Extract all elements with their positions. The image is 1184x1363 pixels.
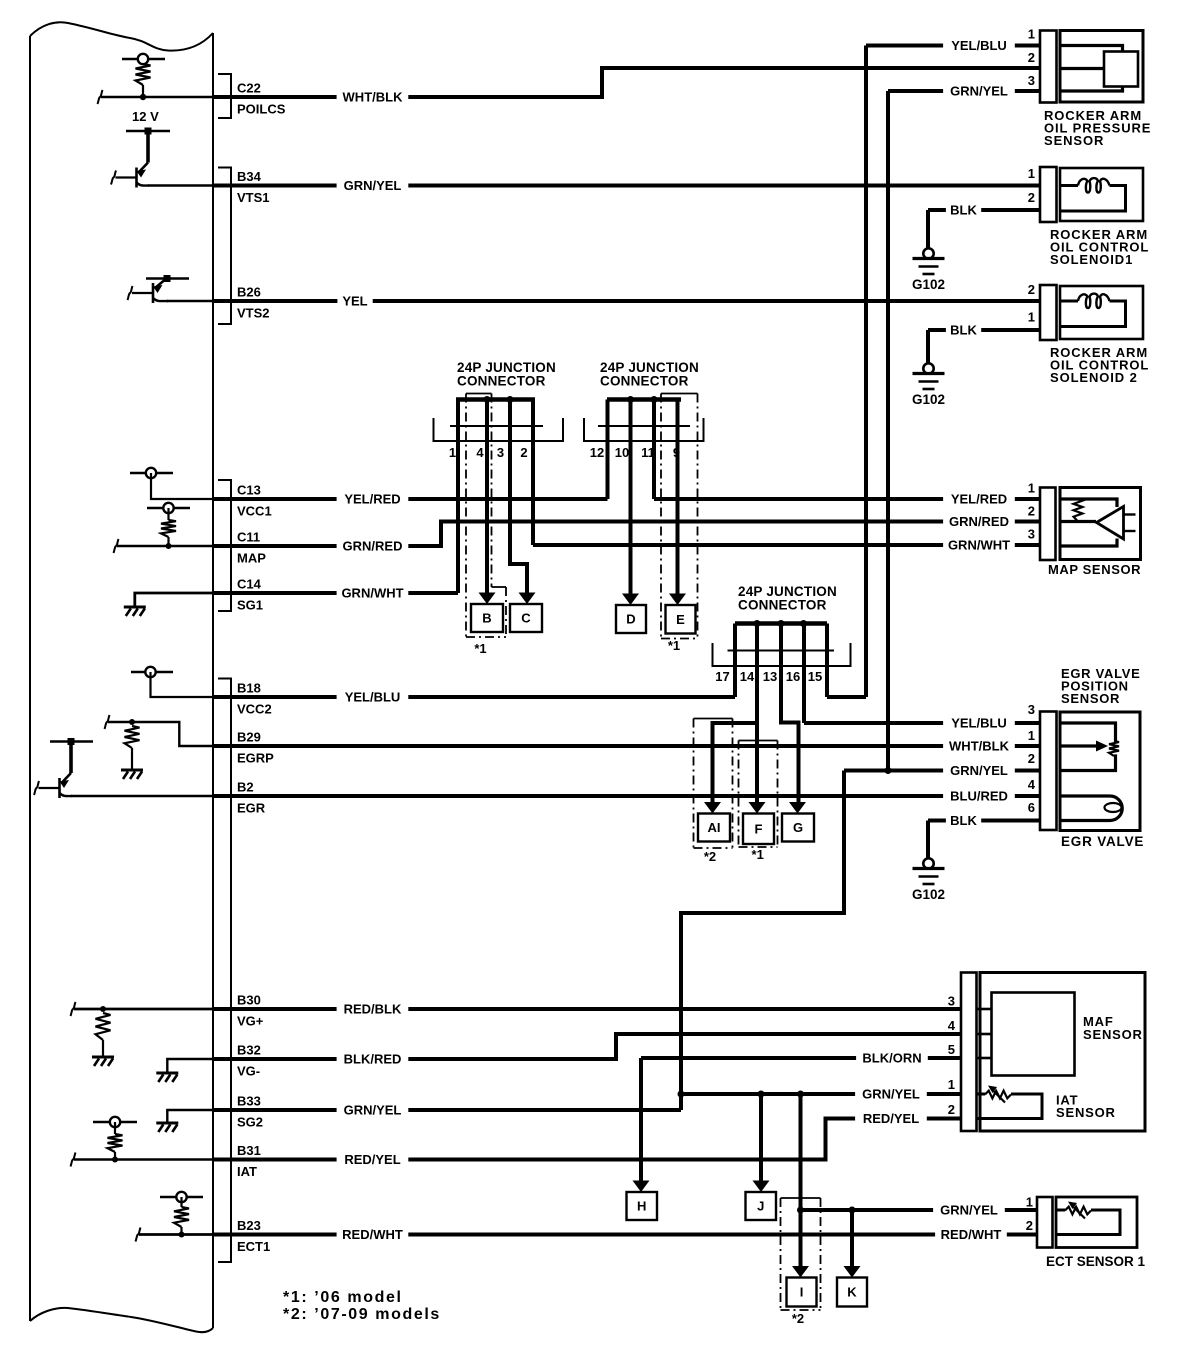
svg-text:EGRP: EGRP	[237, 751, 274, 766]
label RED/YEL	[337, 1151, 409, 1168]
svg-text:MAP: MAP	[237, 551, 266, 566]
svg-text:WHT/BLK: WHT/BLK	[949, 739, 1010, 754]
junction reference box D	[616, 605, 646, 633]
internal divider at C11 (MAP)	[147, 507, 190, 509]
svg-text:YEL/BLU: YEL/BLU	[951, 716, 1007, 731]
EGR body	[1060, 712, 1140, 831]
svg-text:SENSOR: SENSOR	[1083, 1027, 1143, 1042]
svg-text:17: 17	[715, 669, 729, 684]
svg-text:B33: B33	[237, 1094, 261, 1109]
svg-text:H: H	[637, 1199, 646, 1214]
JC1 bus junction dot pin 3	[507, 396, 514, 403]
JC1 connector face	[450, 425, 543, 427]
wire BLK drop to G102	[926, 330, 930, 363]
JC3 pin 15	[825, 624, 829, 698]
svg-text:AI: AI	[708, 820, 721, 835]
internal circuit at B30 (VG+)	[74, 1008, 213, 1011]
svg-text:15: 15	[808, 669, 822, 684]
junction on EGRP bar	[129, 719, 135, 725]
svg-text:WHT/BLK: WHT/BLK	[343, 90, 404, 105]
label GRN/RED	[337, 538, 409, 555]
EGR valve coil	[1060, 796, 1122, 821]
svg-text:1: 1	[1028, 310, 1035, 325]
svg-text:5: 5	[948, 1042, 955, 1057]
svg-text:2: 2	[520, 445, 527, 460]
svg-text:ECT1: ECT1	[237, 1239, 270, 1254]
svg-text:SOLENOID1: SOLENOID1	[1050, 252, 1133, 267]
wire GRN/YEL drop to K	[850, 1210, 854, 1266]
JC3 bus junction dot pin 14	[754, 620, 761, 627]
JC2 connector bracket	[584, 418, 704, 441]
MAP amplifier triangle	[1097, 507, 1124, 540]
wire GRN/YEL drop to J	[759, 1094, 763, 1181]
MAP sensor internals	[1060, 499, 1117, 507]
JC1 connector bracket	[434, 418, 564, 441]
junction reference box J	[746, 1192, 777, 1220]
svg-text:YEL/BLU: YEL/BLU	[345, 690, 401, 705]
MAF sensor connector	[961, 973, 977, 1132]
svg-text:GRN/WHT: GRN/WHT	[948, 538, 1010, 553]
junction reference box H	[627, 1192, 658, 1220]
label BLK/RED	[337, 1051, 409, 1068]
JC3 pin 13 to box G	[781, 624, 799, 803]
JC3 connector bracket	[713, 643, 851, 666]
svg-text:RED/BLK: RED/BLK	[344, 1002, 402, 1017]
svg-text:B18: B18	[237, 681, 261, 696]
label RED/WHT ECT	[935, 1226, 1007, 1243]
rocker arm oil pressure sensor connector	[1040, 31, 1057, 103]
internal supply circuit at B18 (VCC2)	[131, 671, 173, 673]
svg-text:YEL/RED: YEL/RED	[951, 492, 1007, 507]
svg-text:I: I	[800, 1285, 804, 1300]
label YEL/RED right	[943, 491, 1015, 508]
svg-text:C22: C22	[237, 81, 261, 96]
svg-text:BLU/RED: BLU/RED	[950, 789, 1008, 804]
junction dot GRN/YEL I branch	[797, 1091, 804, 1098]
wire YEL/BLU JC3 pin 15 link to trunk	[827, 695, 866, 699]
svg-text:POILCS: POILCS	[237, 102, 286, 117]
transistor Q1 (VTS1 driver)	[126, 130, 170, 132]
svg-text:MAP SENSOR: MAP SENSOR	[1048, 562, 1141, 577]
svg-text:*2: *2	[792, 1311, 804, 1326]
label WHT/BLK EGR	[943, 738, 1015, 755]
svg-text:*2: ’07-09 models: *2: ’07-09 models	[283, 1306, 441, 1323]
label GRN/YEL	[337, 1102, 409, 1119]
solenoid 2 connector	[1040, 285, 1057, 340]
svg-text:G102: G102	[912, 277, 945, 292]
svg-text:G: G	[793, 820, 803, 835]
svg-text:14: 14	[740, 669, 755, 684]
junction reference box AI	[698, 814, 730, 842]
MAF sensor body	[980, 973, 1145, 1132]
svg-text:2: 2	[1028, 282, 1035, 297]
junction dot GRN/YEL trunk at EGR row	[885, 767, 892, 774]
svg-text:SENSOR: SENSOR	[1044, 133, 1104, 148]
dash-dot box *1 around JC2 pin 9 and box E	[661, 393, 698, 395]
svg-text:16: 16	[786, 669, 800, 684]
junction on ECT1 wire	[179, 1232, 185, 1238]
ECT sensor 1 connector	[1037, 1197, 1053, 1248]
ECM band right edge	[212, 33, 214, 1328]
solenoid 1 connector	[1040, 167, 1057, 222]
svg-text:GRN/YEL: GRN/YEL	[950, 763, 1008, 778]
wire WHT/BLK from B29 to EGR valve position sensor pin 1	[213, 744, 1040, 748]
svg-text:4: 4	[1028, 777, 1036, 792]
svg-text:GRN/YEL: GRN/YEL	[950, 84, 1008, 99]
junction dot GRN/YEL J branch	[758, 1091, 765, 1098]
label GRN/WHT right	[943, 537, 1015, 554]
JC1 pin 3 to box C	[510, 400, 527, 593]
arrow into B	[479, 593, 496, 605]
internal ground at B33 (SG2)	[167, 1110, 213, 1122]
ECT thermistor	[1056, 1209, 1065, 1212]
svg-text:SG2: SG2	[237, 1115, 263, 1130]
junction reference box I	[787, 1278, 817, 1307]
solenoid 2 coil	[1060, 300, 1078, 303]
label WHT/BLK	[337, 89, 409, 106]
arrow into D	[622, 594, 639, 606]
chassis ground VG+	[92, 1056, 114, 1059]
wire RED/BLK from B30 to MAF sensor pin 3	[213, 1007, 961, 1011]
wire WHT/BLK from C22 to rocker arm oil pressure sensor pin 2	[213, 68, 1040, 97]
svg-text:*1: ’06 model: *1: ’06 model	[283, 1289, 403, 1306]
solenoid 1 body	[1060, 168, 1143, 221]
svg-text:EGR: EGR	[237, 801, 266, 816]
junction reference box E	[666, 605, 696, 634]
bracket B18-B23	[218, 679, 231, 1263]
wire GRN/YEL to MAF sensor pin 1	[681, 1092, 961, 1096]
wire YEL/BLU to rocker arm oil pressure sensor pin 1	[866, 44, 1040, 48]
svg-text:RED/WHT: RED/WHT	[941, 1227, 1002, 1242]
wire RED/WHT from B23 to ECT sensor 1 pin 2	[213, 1233, 1040, 1237]
dash-dot box *1 around box F	[739, 740, 778, 742]
svg-text:K: K	[847, 1285, 857, 1300]
svg-text:RED/YEL: RED/YEL	[344, 1152, 400, 1167]
wire YEL/BLU vertical trunk	[864, 46, 868, 698]
JC2 busbar	[607, 397, 681, 402]
wire GRN/RED from C11 to MAP sensor pin 2	[213, 522, 1040, 547]
svg-text:11: 11	[641, 445, 655, 460]
svg-text:J: J	[757, 1199, 764, 1214]
pressure switch internals	[1060, 46, 1123, 53]
junction on VG+ wire	[100, 1006, 106, 1012]
svg-text:2: 2	[1028, 504, 1035, 519]
bracket C13-C14	[218, 480, 231, 611]
label YEL	[337, 293, 372, 310]
junction dot GRN/YEL at MAF row	[678, 1091, 685, 1098]
JC3 bus junction dot pin 16	[800, 620, 807, 627]
svg-text:BLK: BLK	[950, 203, 977, 218]
JC1 pin 1	[456, 400, 460, 594]
svg-text:GRN/YEL: GRN/YEL	[862, 1087, 920, 1102]
label YEL/RED	[337, 491, 409, 508]
label GRN/YEL ECT	[933, 1202, 1005, 1219]
svg-text:1: 1	[1028, 166, 1035, 181]
svg-text:B29: B29	[237, 730, 261, 745]
svg-text:YEL/RED: YEL/RED	[344, 492, 400, 507]
svg-text:2: 2	[1028, 751, 1035, 766]
MAP sensor body	[1060, 488, 1141, 560]
svg-text:G102: G102	[912, 887, 945, 902]
MAP sensor connector	[1040, 488, 1056, 561]
svg-text:*1: *1	[752, 847, 764, 862]
dash-dot box *2 around box I	[781, 1197, 821, 1199]
svg-text:B34: B34	[237, 169, 262, 184]
svg-text:SG1: SG1	[237, 598, 263, 613]
junction dot GRN/YEL at ECT row	[797, 1207, 804, 1214]
wire GRN/YEL to EGR valve position sensor pin 2	[844, 769, 1040, 773]
svg-text:3: 3	[1028, 702, 1035, 717]
svg-text:F: F	[755, 821, 763, 836]
wire GRN/YEL trunk down to MAF branch	[681, 771, 844, 1111]
solenoid 1 coil	[1060, 184, 1078, 187]
label GRN/WHT	[337, 585, 409, 602]
JC3 busbar	[735, 621, 827, 626]
svg-text:VTS2: VTS2	[237, 306, 270, 321]
MAF inner block	[992, 993, 1075, 1076]
svg-text:EGR VALVE: EGR VALVE	[1061, 834, 1144, 849]
svg-text:12 V: 12 V	[132, 109, 159, 124]
junction reference box G	[782, 814, 814, 842]
transistor Q3 (EGR driver)	[50, 740, 93, 742]
svg-text:BLK: BLK	[950, 813, 977, 828]
label YEL/BLU EGR	[943, 715, 1015, 732]
svg-text:*1: *1	[474, 641, 486, 656]
wire GRN/YEL drop to ECT branch	[799, 1094, 803, 1210]
MAP internal resistor	[1074, 499, 1083, 522]
svg-text:2: 2	[1028, 50, 1035, 65]
svg-text:GRN/YEL: GRN/YEL	[344, 1103, 402, 1118]
internal pull-up at B31 (IAT)	[93, 1121, 137, 1123]
label GRN/YEL EGR	[943, 762, 1015, 779]
wire BLK solenoid 1 pin 2 to ground	[928, 208, 1040, 212]
label GRN/RED right	[943, 513, 1015, 530]
svg-text:2: 2	[948, 1102, 955, 1117]
label GRN/YEL right	[943, 83, 1015, 100]
arrow into J	[753, 1181, 770, 1193]
svg-text:SENSOR: SENSOR	[1061, 691, 1120, 706]
svg-text:SENSOR: SENSOR	[1056, 1105, 1116, 1120]
svg-text:GRN/YEL: GRN/YEL	[344, 178, 402, 193]
svg-text:ECT SENSOR 1: ECT SENSOR 1	[1046, 1254, 1146, 1269]
svg-text:3: 3	[497, 445, 504, 460]
svg-text:B: B	[482, 611, 491, 626]
svg-text:B26: B26	[237, 285, 261, 300]
junction on C11 wire	[166, 543, 172, 549]
label RED/WHT	[337, 1226, 409, 1243]
IAT thermistor	[977, 1093, 986, 1096]
JC1 pin 4 to box B	[485, 400, 489, 593]
junction on IAT wire	[112, 1157, 118, 1163]
label BLK/ORN	[856, 1050, 928, 1067]
label YEL/BLU	[337, 689, 409, 706]
JC3 pin 14 to box F	[755, 624, 759, 803]
wire GRN/WHT from JC1 pin 2 to MAP sensor pin 3	[533, 543, 1040, 547]
svg-text:B32: B32	[237, 1043, 261, 1058]
svg-text:CONNECTOR: CONNECTOR	[457, 374, 546, 389]
junction reference box B	[471, 604, 503, 632]
internal circuit at B29 (EGRP)	[108, 722, 213, 746]
wire YEL/BLU from JC3 pin 16 to EGR valve position sensor pin 3	[804, 721, 1040, 725]
svg-text:C14: C14	[237, 577, 262, 592]
bracket C22	[218, 74, 231, 118]
svg-text:3: 3	[948, 994, 955, 1009]
ECT sensor 1 body	[1056, 1197, 1137, 1248]
junction reference box C	[510, 604, 542, 632]
label GRN/YEL MAF	[855, 1086, 927, 1103]
svg-text:D: D	[626, 612, 635, 627]
ECM band wavy top edge	[30, 22, 213, 50]
arrow into AI	[704, 802, 721, 814]
svg-text:VCC1: VCC1	[237, 504, 272, 519]
junction reference box F	[743, 814, 774, 845]
svg-text:G102: G102	[912, 392, 945, 407]
svg-text:IAT: IAT	[237, 1164, 257, 1179]
JC2 pin 11	[652, 400, 656, 500]
JC1 pin 2	[531, 400, 535, 546]
label BLU/RED EGR	[943, 788, 1015, 805]
solenoid 2 body	[1060, 286, 1143, 339]
JC2 bus junction dot pin 11	[651, 396, 658, 403]
wire YEL/RED from C13 to JC2 pin 12	[213, 497, 608, 501]
svg-text:2: 2	[1028, 190, 1035, 205]
svg-text:GRN/YEL: GRN/YEL	[940, 1203, 998, 1218]
chassis ground VG-	[156, 1072, 178, 1075]
bracket B34-B26	[218, 168, 231, 325]
svg-text:1: 1	[948, 1077, 955, 1092]
chassis ground SG1	[124, 606, 146, 609]
svg-text:1: 1	[449, 445, 456, 460]
arrow into C	[519, 593, 536, 605]
internal pull-up at B23 (ECT1)	[160, 1196, 203, 1198]
label GRN/YEL	[337, 177, 409, 194]
label YEL/BLU right	[943, 37, 1015, 54]
svg-text:VG+: VG+	[237, 1014, 264, 1029]
internal wire B31	[74, 1158, 213, 1160]
svg-text:*1: *1	[668, 638, 680, 653]
wire BLK drop to G102	[926, 821, 930, 859]
JC3 pin 14 branch to box AI	[713, 723, 758, 803]
internal ground at C14 (SG1)	[135, 593, 213, 607]
svg-text:GRN/WHT: GRN/WHT	[341, 586, 403, 601]
svg-text:4: 4	[948, 1018, 956, 1033]
EGR connector	[1040, 712, 1057, 831]
svg-text:4: 4	[476, 445, 484, 460]
label BLK solenoid 1	[946, 202, 981, 219]
wire GRN/YEL to rocker arm oil pressure sensor pin 3	[888, 89, 1040, 93]
svg-text:C13: C13	[237, 483, 261, 498]
wire GRN/YEL from B34 to solenoid 1 pin 1	[213, 184, 1040, 188]
ECM band wavy bottom edge	[30, 1308, 213, 1332]
label BLK EGR	[946, 812, 981, 829]
wire GRN/YEL from B33 to trunk	[213, 1108, 681, 1112]
dash-dot box *1 around JC1 pin 4 and box B	[466, 393, 492, 395]
svg-text:BLK: BLK	[950, 323, 977, 338]
arrow into F	[749, 802, 766, 814]
ground G102 solenoid 2	[923, 363, 933, 373]
svg-text:BLK/RED: BLK/RED	[344, 1052, 402, 1067]
svg-text:C11: C11	[237, 530, 260, 545]
wire GRN/YEL drop to I	[799, 1210, 803, 1266]
arrow into I	[792, 1266, 809, 1278]
svg-text:10: 10	[615, 445, 629, 460]
wire BLK drop to G102	[926, 210, 930, 248]
ground G102 EGR valve	[923, 858, 933, 868]
svg-text:VCC2: VCC2	[237, 702, 272, 717]
svg-text:B2: B2	[237, 780, 254, 795]
JC2 pin 9 to box E	[676, 400, 680, 594]
svg-text:GRN/RED: GRN/RED	[343, 539, 403, 554]
svg-text:2: 2	[1026, 1218, 1033, 1233]
dash-dot box *2 around box AI	[694, 718, 733, 720]
arrow into H	[633, 1181, 650, 1193]
wire RED/YEL from B31 to MAF sensor pin 2	[213, 1119, 961, 1160]
internal pull-up resistor circuit at C22	[122, 58, 165, 60]
svg-text:CONNECTOR: CONNECTOR	[600, 374, 689, 389]
svg-text:VG-: VG-	[237, 1064, 260, 1079]
wire GRN/YEL vertical trunk	[886, 91, 890, 771]
svg-text:E: E	[676, 612, 685, 627]
wire YEL/BLU from B18 to JC3 pin 17	[213, 695, 735, 699]
svg-text:1: 1	[1028, 27, 1035, 42]
internal ground at B32 (VG-)	[167, 1059, 213, 1072]
transistor Q2 (VTS2 driver)	[146, 277, 189, 279]
ground G102 solenoid 1	[923, 248, 933, 258]
svg-text:1: 1	[1028, 728, 1035, 743]
svg-text:C: C	[521, 611, 531, 626]
svg-text:1: 1	[1028, 481, 1035, 496]
svg-text:12: 12	[590, 445, 604, 460]
wire BLK/ORN MAF sensor pin 5	[641, 1056, 961, 1060]
chassis ground SG2	[156, 1122, 178, 1125]
svg-text:B31: B31	[237, 1143, 261, 1158]
label RED/YEL MAF	[855, 1110, 927, 1127]
wire GRN/WHT from C14 to JC1 pin 1	[213, 591, 458, 595]
arrow into K	[844, 1266, 861, 1278]
JC2 pin 12	[606, 400, 610, 500]
JC2 connector face	[598, 425, 690, 427]
svg-text:*2: *2	[704, 849, 716, 864]
svg-text:6: 6	[1028, 800, 1035, 815]
label RED/BLK	[337, 1001, 409, 1018]
svg-text:B23: B23	[237, 1218, 261, 1233]
svg-text:YEL/BLU: YEL/BLU	[951, 38, 1007, 53]
svg-text:RED/YEL: RED/YEL	[863, 1111, 919, 1126]
svg-text:CONNECTOR: CONNECTOR	[738, 598, 827, 613]
wire YEL/RED from JC2 pin 11 to MAP sensor pin 1	[654, 497, 1040, 501]
svg-text:1: 1	[1026, 1195, 1033, 1210]
JC1 bus junction dot pin 4	[484, 396, 491, 403]
wire BLK EGR valve pin 6 to ground	[928, 819, 1040, 823]
svg-text:YEL: YEL	[342, 294, 367, 309]
wire BLK/RED from B32 to MAF sensor pin 4	[213, 1034, 961, 1059]
ECM band left edge	[29, 36, 31, 1321]
wire BLK solenoid 2 pin 1 to ground	[928, 328, 1040, 332]
svg-text:13: 13	[763, 669, 777, 684]
label BLK solenoid 2	[946, 322, 981, 339]
svg-text:B30: B30	[237, 993, 261, 1008]
JC3 bus junction dot pin 13	[778, 620, 785, 627]
JC3 pin 17	[733, 624, 737, 698]
internal supply circuit at C13 (VCC1)	[130, 472, 173, 474]
internal wire B23	[139, 1233, 213, 1236]
wire YEL from B26 to solenoid 2 pin 2	[213, 299, 1040, 303]
wire BLK/ORN drop to H	[639, 1058, 643, 1181]
internal wire C22	[101, 96, 213, 98]
arrow into E	[669, 594, 686, 606]
JC3 pin 16	[802, 624, 806, 724]
internal wire C11	[117, 545, 213, 547]
